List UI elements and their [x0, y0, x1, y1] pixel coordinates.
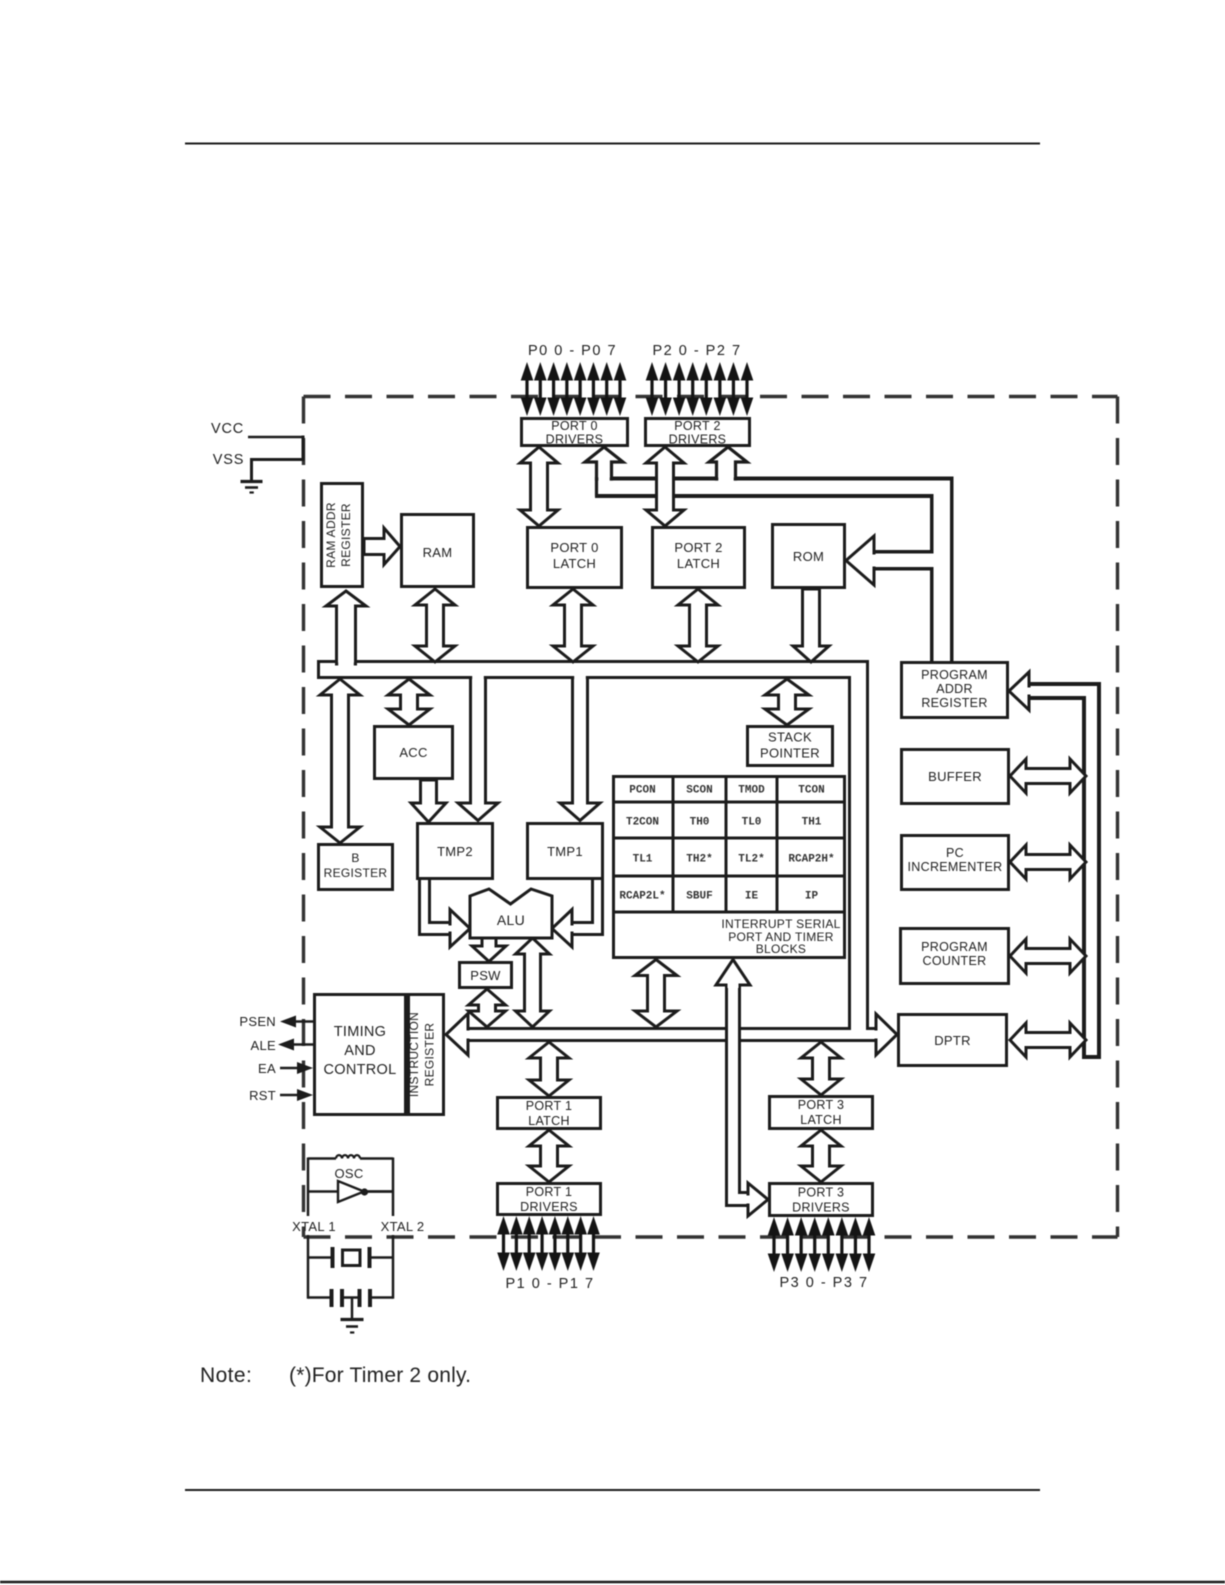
svg-text:ACC: ACC	[399, 745, 427, 760]
svg-text:ALU: ALU	[497, 912, 525, 928]
svg-text:POINTER: POINTER	[760, 746, 820, 761]
svg-text:DRIVERS: DRIVERS	[546, 433, 604, 447]
svg-text:TL2*: TL2*	[738, 854, 764, 866]
svg-text:VSS: VSS	[213, 452, 244, 468]
svg-text:PROGRAM: PROGRAM	[921, 940, 988, 954]
svg-text:REGISTER: REGISTER	[921, 696, 987, 710]
svg-text:INTERRUPT SERIAL: INTERRUPT SERIAL	[721, 917, 840, 931]
svg-text:REGISTER: REGISTER	[324, 866, 388, 880]
svg-text:PC: PC	[946, 846, 964, 860]
svg-text:BUFFER: BUFFER	[928, 769, 982, 784]
svg-text:COUNTER: COUNTER	[923, 954, 987, 968]
svg-text:Note:: Note:	[200, 1364, 252, 1387]
svg-text:PORT 3: PORT 3	[798, 1098, 845, 1112]
svg-text:DRIVERS: DRIVERS	[792, 1201, 850, 1215]
svg-text:OSC: OSC	[334, 1166, 363, 1181]
svg-text:TH0: TH0	[690, 817, 710, 829]
svg-text:TIMING: TIMING	[334, 1024, 387, 1040]
svg-text:PORT 2: PORT 2	[674, 419, 721, 433]
svg-text:PORT 0: PORT 0	[551, 419, 598, 433]
svg-text:RAM ADDR: RAM ADDR	[324, 502, 338, 568]
svg-text:PSEN: PSEN	[239, 1014, 276, 1029]
svg-text:STACK: STACK	[768, 730, 812, 745]
svg-text:LATCH: LATCH	[528, 1114, 570, 1128]
svg-text:PSW: PSW	[470, 968, 501, 983]
svg-text:PCON: PCON	[629, 785, 655, 797]
svg-text:P2 0 - P2 7: P2 0 - P2 7	[652, 343, 741, 359]
svg-text:REGISTER: REGISTER	[339, 503, 353, 567]
svg-text:LATCH: LATCH	[553, 556, 596, 571]
svg-text:PORT 1: PORT 1	[526, 1099, 573, 1113]
svg-text:P1 0 - P1 7: P1 0 - P1 7	[505, 1276, 594, 1292]
svg-text:TH2*: TH2*	[686, 854, 712, 866]
svg-text:AND: AND	[344, 1043, 376, 1059]
svg-text:RST: RST	[249, 1088, 276, 1103]
svg-text:TL1: TL1	[633, 854, 653, 866]
svg-text:RCAP2L*: RCAP2L*	[619, 891, 665, 903]
svg-text:DRIVERS: DRIVERS	[520, 1200, 578, 1214]
svg-text:B: B	[351, 851, 359, 865]
svg-text:ADDR: ADDR	[936, 682, 973, 696]
svg-text:PORT 3: PORT 3	[798, 1186, 845, 1200]
svg-text:XTAL 2: XTAL 2	[381, 1219, 425, 1234]
svg-text:P0 0 - P0 7: P0 0 - P0 7	[528, 343, 617, 359]
svg-text:PORT 0: PORT 0	[550, 540, 598, 555]
svg-text:SBUF: SBUF	[686, 891, 712, 903]
svg-text:P3 0 - P3 7: P3 0 - P3 7	[779, 1275, 868, 1291]
svg-text:TH1: TH1	[802, 817, 822, 829]
svg-text:INSTRUCTION: INSTRUCTION	[407, 1012, 421, 1097]
svg-text:(*)For Timer 2 only.: (*)For Timer 2 only.	[289, 1364, 471, 1387]
svg-text:CONTROL: CONTROL	[324, 1062, 397, 1078]
svg-text:TMP2: TMP2	[437, 844, 473, 859]
svg-text:IP: IP	[805, 891, 819, 903]
svg-text:SCON: SCON	[686, 785, 712, 797]
svg-text:ROM: ROM	[793, 549, 824, 564]
svg-text:VCC: VCC	[211, 421, 244, 437]
svg-text:PORT 2: PORT 2	[674, 540, 722, 555]
svg-text:TL0: TL0	[742, 817, 762, 829]
svg-text:TMP1: TMP1	[547, 844, 583, 859]
svg-text:RAM: RAM	[423, 545, 453, 560]
svg-text:TCON: TCON	[798, 785, 824, 797]
svg-text:INCREMENTER: INCREMENTER	[908, 860, 1003, 874]
svg-text:LATCH: LATCH	[800, 1113, 842, 1127]
svg-text:ALE: ALE	[251, 1038, 277, 1053]
svg-text:EA: EA	[258, 1061, 276, 1076]
svg-text:DPTR: DPTR	[934, 1033, 971, 1048]
svg-text:LATCH: LATCH	[677, 556, 720, 571]
svg-text:T2CON: T2CON	[626, 817, 659, 829]
svg-text:XTAL 1: XTAL 1	[292, 1219, 336, 1234]
svg-text:PROGRAM: PROGRAM	[921, 668, 988, 682]
svg-text:DRIVERS: DRIVERS	[669, 433, 727, 447]
svg-text:BLOCKS: BLOCKS	[756, 942, 807, 956]
svg-text:IE: IE	[745, 891, 759, 903]
svg-text:REGISTER: REGISTER	[423, 1023, 437, 1087]
svg-text:TMOD: TMOD	[738, 785, 765, 797]
svg-text:PORT 1: PORT 1	[526, 1185, 573, 1199]
svg-text:RCAP2H*: RCAP2H*	[788, 854, 834, 866]
